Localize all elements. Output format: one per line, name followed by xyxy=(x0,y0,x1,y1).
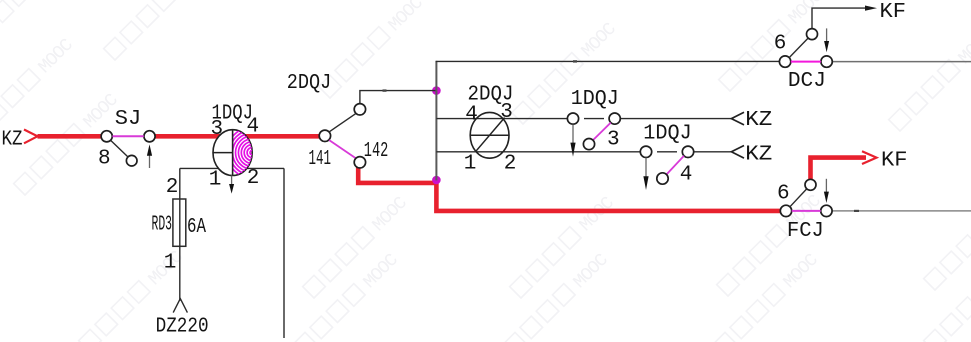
contact FCJ throw circle xyxy=(805,179,816,190)
svg-text:4: 4 xyxy=(465,103,478,126)
wire: sub rail under 1DQJ coil xyxy=(180,167,284,169)
wire: 1DQJ bottom contact to KZ xyxy=(694,151,732,153)
wire: vertical bus x=436 xyxy=(435,61,437,180)
svg-text:DZ220: DZ220 xyxy=(156,316,209,339)
contact 1DQJ-bot down arrow xyxy=(645,158,647,178)
relay 1DQJ vertical diameter xyxy=(232,130,234,176)
contact 1DQJ-top link dash xyxy=(584,118,604,120)
svg-text:1: 1 xyxy=(209,169,222,192)
contact 1DQJ-bot throw circle xyxy=(657,173,668,184)
contact DCJ closed link xyxy=(791,61,821,63)
relay 1DQJ horizontal radius xyxy=(213,152,233,154)
contact SJ open throw circle xyxy=(126,155,137,166)
svg-text:2: 2 xyxy=(247,167,260,190)
contact SJ right circle xyxy=(144,131,155,142)
relay 1DQJ bottom arrow xyxy=(231,176,233,187)
contact SJ left circle xyxy=(101,131,112,142)
svg-text:FCJ: FCJ xyxy=(787,220,824,243)
wire: KZ bottom arrow xyxy=(731,146,744,159)
contact 1DQJ-top thrown arm xyxy=(593,123,611,140)
svg-text:KZ: KZ xyxy=(2,129,23,152)
contact 1DQJ-bot left circle xyxy=(640,146,651,157)
svg-text:RD3: RD3 xyxy=(152,214,173,237)
wire: 2DQJ front contact to top node xyxy=(360,91,437,104)
svg-text:4: 4 xyxy=(247,115,260,138)
contact SJ up arrow xyxy=(149,150,151,168)
svg-text:KZ: KZ xyxy=(745,109,772,132)
node A junction dot xyxy=(432,86,441,95)
relay coil 1DQJ xyxy=(213,130,252,176)
svg-text:SJ: SJ xyxy=(115,108,142,131)
wire: right drop to bottom edge xyxy=(283,168,285,338)
wire: DCJ right to edge xyxy=(832,61,971,63)
contact DCJ throw circle xyxy=(807,29,818,40)
contact FCJ throw arm xyxy=(790,189,807,207)
contact SJ closed link xyxy=(112,135,143,137)
svg-text:6: 6 xyxy=(777,182,790,205)
wire: tick on 2DQJ top node wire xyxy=(383,89,387,91)
wire: tick on FCJ right line xyxy=(854,210,859,212)
relay coil 2DQJ xyxy=(470,112,509,158)
contact 142 closed arm xyxy=(329,140,356,158)
contact 141 front arm xyxy=(329,113,356,131)
wire: FCJ right to edge xyxy=(832,210,971,212)
svg-text:1DQJ: 1DQJ xyxy=(643,123,692,146)
contact 1DQJ-bot thrown arm xyxy=(667,156,684,175)
wire: red KF arrow xyxy=(862,151,877,164)
wire: DZ220 source caret xyxy=(173,299,187,313)
contact 1DQJ-top right circle xyxy=(609,113,620,124)
contact DCJ throw arm xyxy=(789,38,808,58)
svg-text:4: 4 xyxy=(680,164,693,187)
fuse RD3 xyxy=(173,199,186,246)
contact 2DQJ-141 common circle xyxy=(319,130,330,141)
contact 1DQJ-bot link dash xyxy=(657,151,677,153)
svg-text:3: 3 xyxy=(500,101,513,124)
wire: red SJ to 1DQJ coil xyxy=(155,134,320,139)
svg-text:8: 8 xyxy=(98,148,111,171)
wire: red FCJ up to KF xyxy=(811,158,867,180)
wire: KF top arrowhead xyxy=(865,6,877,11)
svg-text:2DQJ: 2DQJ xyxy=(287,72,332,95)
contact 1DQJ-top left circle xyxy=(567,113,578,124)
contact FCJ left circle xyxy=(780,205,791,216)
wire: top rail to DCJ xyxy=(436,60,780,62)
wire: red 142 contact down right to FCJ xyxy=(358,167,780,211)
contact DCJ right circle xyxy=(821,56,832,67)
contact 1DQJ-bot right circle xyxy=(682,146,693,157)
wire: left drop to fuse xyxy=(179,168,181,300)
wire: DCJ up to KF xyxy=(812,8,867,29)
svg-text:KF: KF xyxy=(881,149,908,172)
svg-text:1: 1 xyxy=(464,153,477,176)
svg-text:DCJ: DCJ xyxy=(788,70,826,93)
svg-text:KZ: KZ xyxy=(745,144,772,167)
svg-text:141: 141 xyxy=(309,148,332,171)
contact FCJ closed link xyxy=(792,210,821,212)
relay 2DQJ horizontal diameter xyxy=(470,134,509,136)
contact 1DQJ-top down arrow xyxy=(572,124,574,144)
wire: middle bottom rail xyxy=(436,151,640,153)
contact 1DQJ-top throw circle xyxy=(583,139,594,150)
svg-text:142: 142 xyxy=(364,140,389,163)
svg-text:1DQJ: 1DQJ xyxy=(571,88,619,111)
contact FCJ right circle xyxy=(821,205,832,216)
contact SJ open throw arm xyxy=(111,140,128,157)
wire: KZ top arrow xyxy=(731,112,744,125)
relay 2DQJ diagonal xyxy=(476,118,505,152)
svg-text:6: 6 xyxy=(774,33,787,56)
wire: middle top rail xyxy=(436,118,567,120)
svg-text:6A: 6A xyxy=(187,216,206,239)
svg-text:KF: KF xyxy=(880,1,907,24)
contact FCJ down arrow xyxy=(825,179,827,193)
wire: red KZ to SJ xyxy=(38,134,102,139)
svg-text:1: 1 xyxy=(164,252,177,275)
wire: tick on top rail xyxy=(573,60,577,62)
svg-text:3: 3 xyxy=(211,118,224,141)
contact 142 back circle xyxy=(354,157,365,168)
svg-text:3: 3 xyxy=(607,129,620,152)
wire: KZ red feed arrow xyxy=(24,130,38,144)
wire: 1DQJ top contact to KZ xyxy=(620,118,731,120)
svg-text:2: 2 xyxy=(504,153,517,176)
contact DCJ left circle xyxy=(779,56,790,67)
contact DCJ down arrow xyxy=(826,28,828,42)
node B junction dot xyxy=(432,176,441,185)
contact 141 front circle xyxy=(354,104,365,115)
svg-text:2: 2 xyxy=(166,176,179,199)
